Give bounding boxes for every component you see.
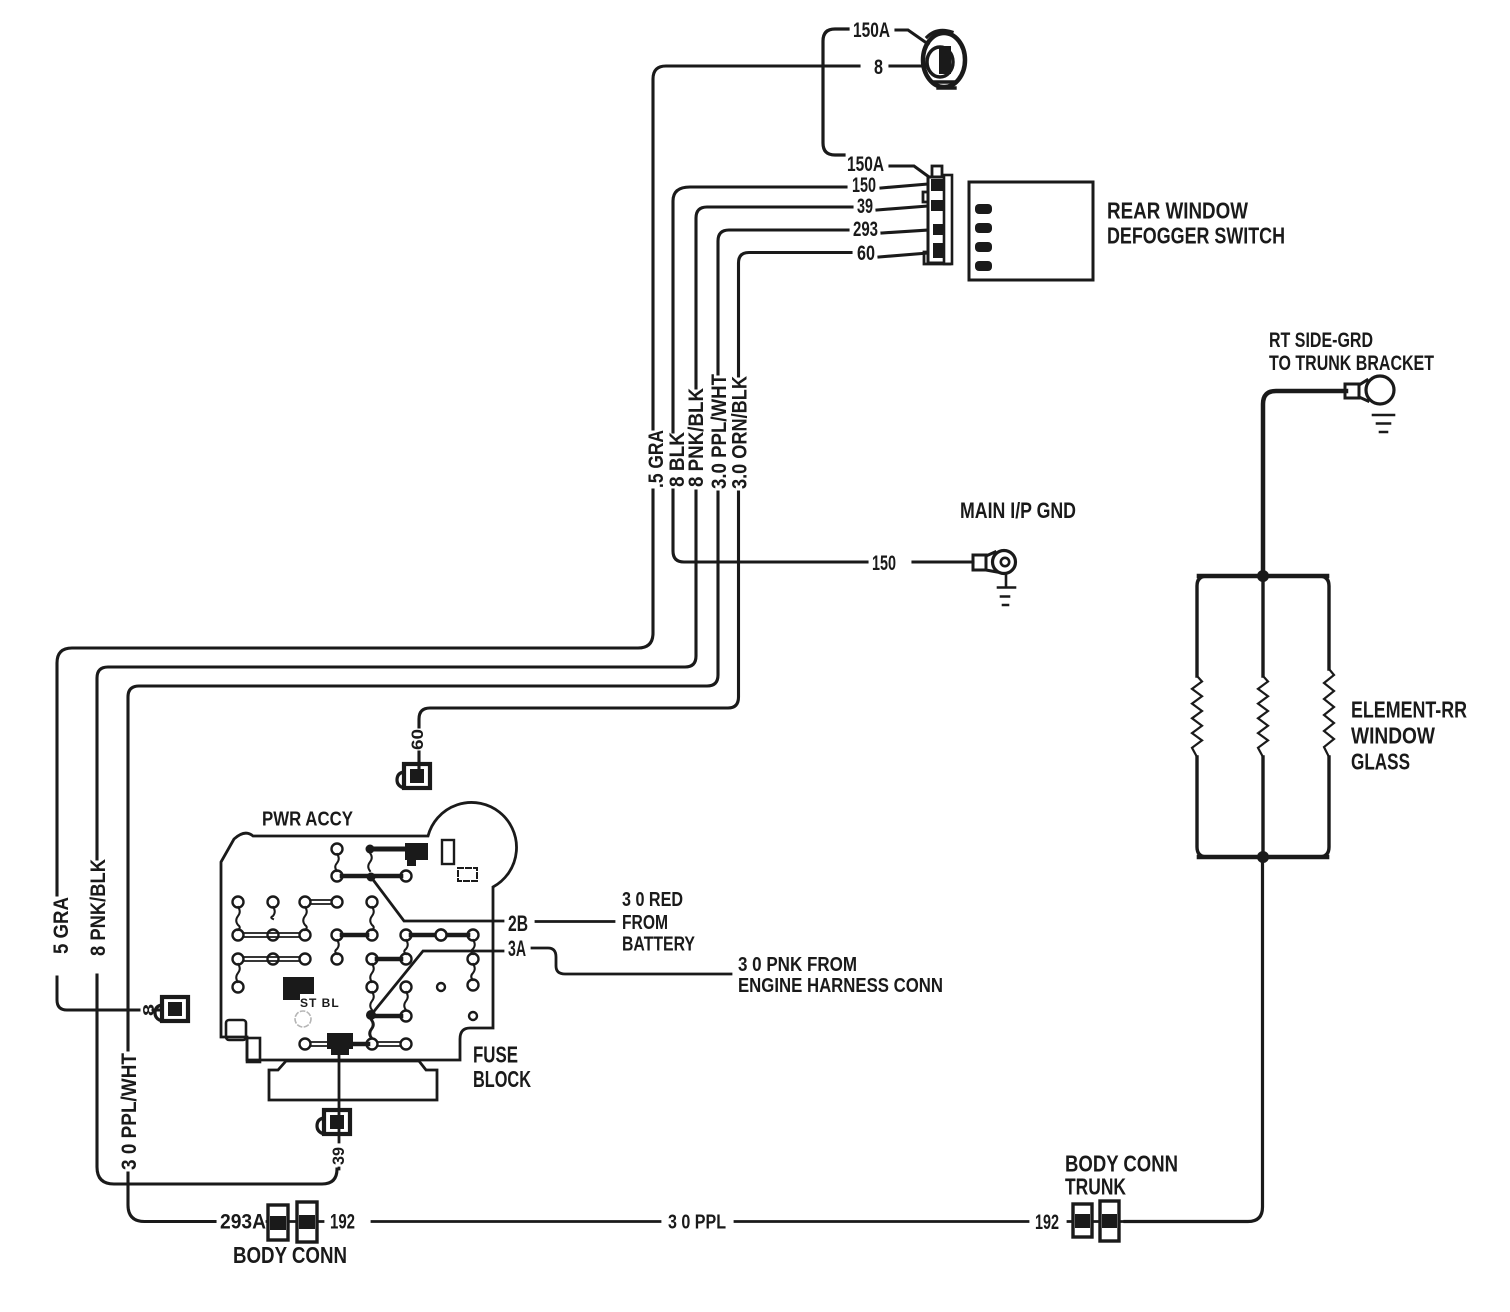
svg-text:BATTERY: BATTERY [622, 933, 695, 956]
svg-text:150: 150 [872, 552, 896, 575]
fuse terminal (over link) [436, 930, 447, 941]
wire 150 lead to pin 1 [881, 184, 928, 188]
connector: wire 60 to fuse block (ORN/BLK) [397, 764, 430, 788]
switch pin 4 [975, 261, 992, 271]
svg-text:ELEMENT-RR: ELEMENT-RR [1351, 697, 1467, 723]
svg-text:150A: 150A [847, 153, 884, 176]
svg-text:3 0 RED: 3 0 RED [622, 888, 683, 911]
wire grd to element (thick) [1263, 391, 1346, 571]
svg-text:8 PNK/BLK: 8 PNK/BLK [685, 388, 708, 487]
wire 2B from fuse to right [367, 873, 376, 882]
connector C1 rear defogger harness (round, circuits 150A / 8) [923, 30, 965, 88]
svg-text:ENGINE HARNESS CONN: ENGINE HARNESS CONN [738, 974, 943, 997]
svg-text:ST BL: ST BL [300, 996, 340, 1010]
wire through body conn [267, 1220, 323, 1223]
fuse PWR ACCY (top, dot and black body) [366, 845, 375, 854]
svg-text:293: 293 [853, 218, 878, 241]
fuse links (double line) [243, 900, 401, 1046]
svg-text:FUSE: FUSE [473, 1042, 518, 1068]
ground symbol (trunk bracket) [1373, 415, 1394, 432]
fuse terminal [268, 954, 279, 965]
small rect details in round lobe [442, 840, 454, 864]
svg-text:192: 192 [330, 1211, 355, 1234]
svg-text:3 0 PNK FROM: 3 0 PNK FROM [738, 953, 857, 976]
wire 3A lead to engine harness note [532, 948, 731, 974]
fuse terminal [468, 980, 479, 991]
fuse block lower plate [269, 1061, 437, 1100]
small rect details bottom-left of fuse block [226, 1020, 246, 1040]
fuse terminal [268, 897, 279, 908]
wire link bracket 150A to 150A [823, 29, 848, 155]
fuse terminal [401, 982, 412, 993]
svg-text:DEFOGGER SWITCH: DEFOGGER SWITCH [1107, 223, 1285, 249]
svg-text:39: 39 [857, 195, 873, 218]
wire .5 GRA : circuit 8, down and around to fuse block area [57, 66, 859, 895]
connector: trunk body conn half B [1100, 1201, 1119, 1241]
svg-text:192: 192 [1035, 1211, 1059, 1234]
svg-text:BODY CONN: BODY CONN [233, 1242, 347, 1268]
ring terminal MAIN I/P GND [973, 551, 1016, 574]
rear window defogger switch box [969, 182, 1093, 280]
svg-text:WINDOW: WINDOW [1351, 723, 1435, 749]
connector: body conn half A (293A) [268, 1205, 288, 1240]
ground symbol (main I/P) [998, 574, 1015, 605]
fuse terminal [332, 871, 343, 882]
svg-text:MAIN I/P GND: MAIN I/P GND [960, 498, 1076, 523]
svg-text:293A: 293A [220, 1211, 266, 1234]
svg-text:150: 150 [852, 174, 876, 197]
fuse terminal [233, 930, 244, 941]
svg-text:GLASS: GLASS [1351, 749, 1410, 775]
svg-text:60: 60 [857, 242, 875, 265]
squiggle jumper wires [236, 853, 475, 1038]
fuse 39 (black body, bottom) [327, 1033, 353, 1055]
wire 150 to ground ring [913, 560, 973, 563]
svg-text:.5 GRA: .5 GRA [645, 430, 668, 488]
connector: wire 39 at fuse block bottom [317, 1110, 350, 1134]
fuse terminal [401, 1039, 412, 1050]
wire 60 : 3.0 ORN/BLK down-left-down to fuse block conn [419, 253, 851, 774]
wire element to trunk body conn [1125, 857, 1263, 1222]
svg-text:TO TRUNK BRACKET: TO TRUNK BRACKET [1269, 352, 1434, 375]
fuse terminal [367, 930, 378, 941]
fuse terminal [300, 1039, 311, 1050]
wire 150A lead into connector C1 [896, 30, 928, 44]
connector: trunk body conn half A [1073, 1204, 1092, 1237]
connector: body conn half B (192) [297, 1202, 317, 1242]
element bottom bus bar [1199, 855, 1327, 860]
svg-text:3 0 PPL/WHT: 3 0 PPL/WHT [118, 1053, 141, 1170]
svg-text:39: 39 [329, 1147, 348, 1165]
svg-text:150A: 150A [853, 19, 890, 42]
connector C2 switch connector strip [923, 166, 952, 264]
fuse terminal [367, 1039, 378, 1050]
fuse terminal [436, 930, 447, 941]
fuse terminal [332, 844, 343, 855]
fuse terminal [401, 1011, 412, 1022]
svg-text:FROM: FROM [622, 911, 668, 934]
svg-text:BLOCK: BLOCK [473, 1066, 531, 1092]
ring terminal RT SIDE-GRD [1345, 376, 1394, 404]
element left branch [1197, 576, 1263, 676]
svg-text:3.0 ORN/BLK: 3.0 ORN/BLK [729, 376, 752, 489]
svg-text:8: 8 [874, 56, 883, 79]
fuse block outline [221, 802, 517, 1060]
svg-text:60: 60 [408, 729, 427, 750]
svg-text:3 0 PPL: 3 0 PPL [668, 1211, 726, 1234]
svg-text:2B: 2B [508, 911, 528, 936]
node: element bottom junction [1257, 851, 1269, 863]
svg-text:3A: 3A [508, 936, 526, 961]
svg-text:PWR ACCY: PWR ACCY [262, 809, 354, 831]
fuse terminal [332, 954, 343, 965]
fuse terminal [468, 930, 479, 941]
switch pin 3 [975, 242, 992, 252]
fuse links (solid) [342, 876, 468, 1044]
fuse terminal [268, 930, 279, 941]
svg-text:TRUNK: TRUNK [1065, 1174, 1126, 1200]
fuse terminal [401, 871, 412, 882]
switch pin 1 [975, 204, 992, 214]
fuse terminal [300, 930, 311, 941]
wire 2B lead to battery note [536, 920, 614, 923]
fuse terminal [233, 897, 244, 908]
fuse terminal [233, 954, 244, 965]
element middle branch [1261, 576, 1264, 857]
wire body conn run [372, 1220, 1028, 1223]
wire 293 : 3.0 PPL/WHT down-left-down to body conn [128, 230, 848, 1222]
node: element top junction [1257, 570, 1269, 582]
svg-text:8: 8 [141, 1004, 158, 1016]
wire 39 lead to pin 2 [877, 206, 928, 210]
wire 60 lead to pin 4 [879, 253, 928, 257]
wire 3A from fuse to right [366, 1010, 376, 1020]
fuse terminal [300, 954, 311, 965]
fuse terminal [300, 897, 311, 908]
fuse terminal [468, 954, 479, 965]
fuse terminal [401, 954, 412, 965]
fuse terminal [332, 897, 343, 908]
wire 150A lead into switch connector [890, 166, 929, 177]
fuse terminal [367, 897, 378, 908]
fuse terminal [332, 930, 343, 941]
wire stub at 8 connector [57, 977, 162, 1010]
wire 8 lead into connector C1 [890, 64, 926, 67]
wire 150 : 8 BLK down to main I/P ground [673, 187, 867, 562]
wire through trunk body conn [1068, 1220, 1126, 1223]
fuse terminal [367, 982, 378, 993]
svg-text:RT SIDE-GRD: RT SIDE-GRD [1269, 329, 1373, 352]
element right branch [1263, 576, 1329, 669]
svg-text:5 GRA: 5 GRA [50, 897, 73, 954]
connector: wire 8 GRA at fuse block [155, 997, 188, 1021]
fuse terminal [401, 930, 412, 941]
element top bus bar [1199, 574, 1327, 579]
black relay mid-left [283, 977, 314, 1000]
wire 39 : 8 PNK/BLK down-left-down to fuse block [97, 207, 852, 1184]
svg-text:8 PNK/BLK: 8 PNK/BLK [87, 859, 110, 956]
wire 39 from fuse block down through plate [338, 1055, 341, 1169]
svg-text:REAR WINDOW: REAR WINDOW [1107, 198, 1249, 224]
switch pin 2 [975, 223, 992, 233]
fuse terminal [367, 954, 378, 965]
fuse terminal [233, 982, 244, 993]
wire 293 lead to pin 3 [882, 230, 928, 233]
